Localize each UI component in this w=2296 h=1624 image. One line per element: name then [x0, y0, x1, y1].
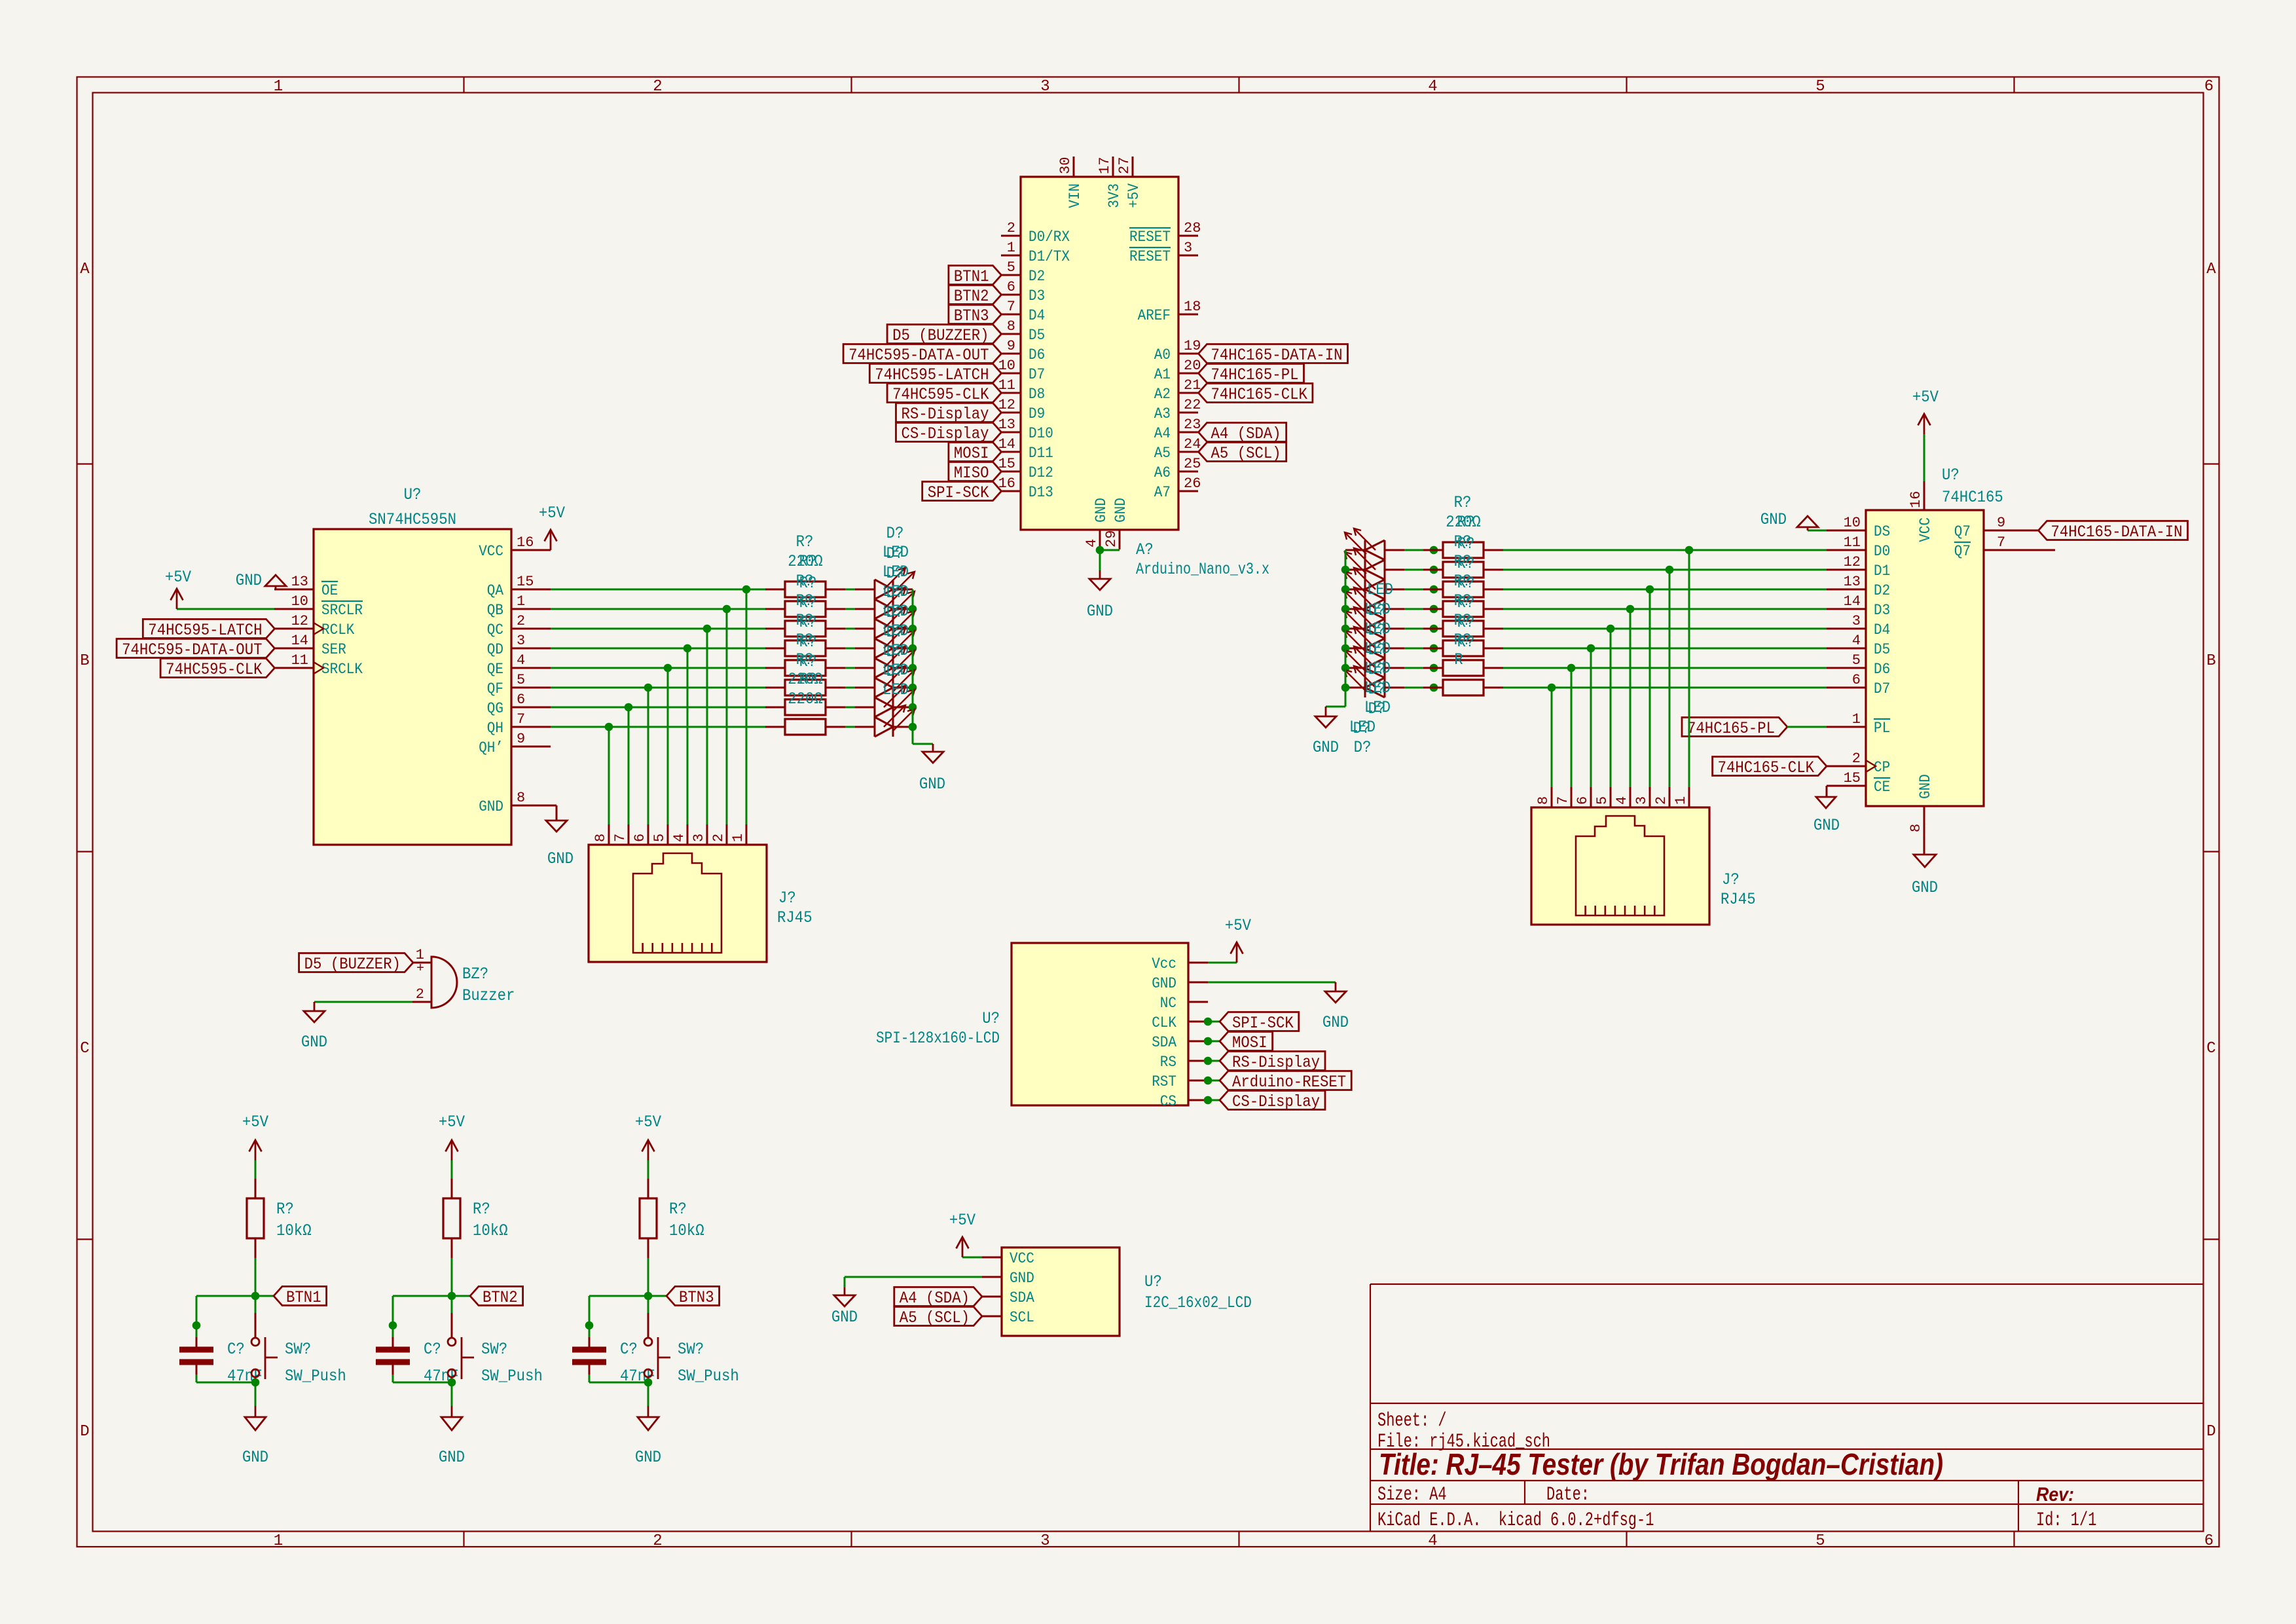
- junction: [605, 723, 613, 731]
- led D? LED row 6: [855, 666, 915, 697]
- ic U? 74HC165 body: [1866, 510, 1984, 806]
- ground at CE pin 15: [1813, 786, 1840, 835]
- hierarchical label MISO: [949, 462, 1002, 481]
- svg-text:10: 10: [291, 593, 308, 610]
- svg-text:D: D: [80, 1423, 89, 1441]
- hierarchical label BTN1: [949, 266, 1002, 285]
- svg-text:Arduino_Nano_v3.x: Arduino_Nano_v3.x: [1136, 560, 1269, 579]
- svg-text:J?: J?: [778, 889, 796, 908]
- svg-text:4: 4: [517, 652, 525, 669]
- svg-text:D?: D?: [886, 524, 904, 543]
- wire: [1208, 962, 1237, 964]
- ground at GND: [1322, 982, 1349, 1032]
- svg-text:D1: D1: [1874, 563, 1890, 580]
- svg-text:3: 3: [1184, 240, 1192, 256]
- svg-text:15: 15: [1844, 770, 1861, 786]
- svg-text:+5V: +5V: [539, 504, 565, 523]
- svg-text:7: 7: [517, 711, 525, 728]
- pin 1: [730, 824, 746, 845]
- svg-text:GND: GND: [236, 571, 262, 590]
- svg-text:GND: GND: [919, 775, 945, 794]
- switch SW? SW_Push button BTN3: [644, 1296, 739, 1386]
- hierarchical label BTN3: [949, 305, 1002, 324]
- svg-text:2: 2: [517, 613, 525, 629]
- svg-text:3: 3: [1040, 1532, 1049, 1550]
- svg-text:3: 3: [1633, 796, 1650, 805]
- svg-text:74HC595-CLK: 74HC595-CLK: [892, 385, 989, 404]
- svg-text:D6: D6: [1874, 661, 1890, 678]
- pin 1: [1673, 787, 1689, 807]
- hierarchical label D5 (BUZZER): [299, 953, 413, 972]
- junction: [251, 1378, 260, 1387]
- capacitor C? 47nF button BTN2: [376, 1325, 459, 1386]
- svg-text:RCLK: RCLK: [321, 621, 355, 638]
- pin 8 GND: [1908, 774, 1934, 855]
- resistor R? 220 ohm row 2: [765, 601, 845, 617]
- pin 19 A0: [1154, 338, 1201, 363]
- svg-text:20: 20: [1184, 358, 1201, 374]
- svg-text:7: 7: [612, 834, 629, 842]
- junction: [1341, 625, 1350, 633]
- hierarchical label BTN1: [274, 1287, 327, 1306]
- svg-text:10kΩ: 10kΩ: [276, 1221, 312, 1240]
- pin 8 D5: [1001, 318, 1045, 344]
- wire: [1208, 1060, 1220, 1062]
- wire: [1404, 608, 1423, 610]
- wire to RJ45: [1610, 629, 1612, 787]
- svg-text:A0: A0: [1154, 346, 1171, 363]
- svg-text:74HC165-CLK: 74HC165-CLK: [1211, 385, 1307, 404]
- svg-text:+5V: +5V: [1912, 388, 1939, 407]
- svg-text:GND: GND: [242, 1448, 268, 1467]
- pin 4 GND: [1084, 498, 1110, 549]
- resistor R? 220 ohm row 3: [1423, 581, 1503, 597]
- pin 9 D6: [1001, 338, 1045, 363]
- wire to RJ45: [746, 589, 748, 824]
- wire: [845, 687, 855, 689]
- hierarchical label Arduino-RESET: [1220, 1071, 1351, 1090]
- svg-text:30: 30: [1057, 157, 1074, 174]
- svg-text:BTN2: BTN2: [483, 1288, 518, 1307]
- hierarchical label CS-Display: [896, 423, 1002, 442]
- svg-text:7: 7: [1007, 299, 1015, 315]
- svg-text:I2C_16x02_LCD: I2C_16x02_LCD: [1144, 1293, 1252, 1312]
- pin 14 D3: [1827, 593, 1890, 619]
- pin 4 D5: [1827, 633, 1890, 658]
- svg-text:17: 17: [1097, 157, 1113, 174]
- wire D0-D7 row 5: [1503, 628, 1827, 630]
- svg-text:D12: D12: [1029, 464, 1053, 481]
- svg-text:GND: GND: [1917, 774, 1934, 799]
- wire QA-QH row 3: [551, 628, 765, 630]
- pin 15 QA: [487, 574, 551, 599]
- junction: [448, 1292, 456, 1301]
- led D? LED row 3: [855, 607, 915, 638]
- junction: [1204, 1077, 1212, 1085]
- wire: [196, 1382, 255, 1384]
- svg-text:6: 6: [517, 692, 525, 708]
- svg-text:+: +: [416, 961, 424, 976]
- svg-text:R?: R?: [799, 613, 817, 632]
- wire: [1787, 726, 1827, 728]
- svg-text:9: 9: [1997, 515, 2005, 531]
- svg-text:7: 7: [1997, 534, 2005, 551]
- svg-text:10: 10: [1844, 515, 1861, 531]
- hierarchical label 74HC165-CLK: [1713, 757, 1827, 776]
- svg-text:QG: QG: [487, 700, 503, 717]
- wire D0-D7 row 4: [1503, 608, 1827, 610]
- wire D0-D7 row 8: [1503, 687, 1827, 689]
- wire: [845, 589, 855, 591]
- svg-text:23: 23: [1184, 416, 1201, 433]
- pin 3 RESET: [1129, 240, 1198, 265]
- hierarchical label 74HC595-LATCH: [143, 619, 274, 638]
- pin 24 A5: [1154, 436, 1201, 462]
- svg-text:+5V: +5V: [1125, 183, 1142, 208]
- resistor R? 10k ohm button BTN3: [640, 1179, 704, 1258]
- pin 13 D2: [1827, 574, 1890, 599]
- wire: [845, 726, 855, 728]
- junction: [1341, 605, 1350, 614]
- pin 1 +: [413, 947, 431, 976]
- junction: [1666, 566, 1674, 574]
- wire: [255, 1382, 257, 1406]
- svg-text:A5 (SCL): A5 (SCL): [900, 1308, 970, 1327]
- wire: [1404, 687, 1423, 689]
- svg-text:D?: D?: [1354, 738, 1372, 757]
- svg-text:D2: D2: [1029, 268, 1045, 285]
- svg-text:D?: D?: [886, 662, 904, 681]
- svg-text:6: 6: [2204, 78, 2214, 96]
- pin 8: [1535, 787, 1552, 807]
- junction: [1341, 644, 1350, 653]
- svg-text:8: 8: [517, 790, 525, 806]
- svg-text:SW_Push: SW_Push: [481, 1367, 543, 1386]
- junction: [585, 1321, 594, 1330]
- ground: [301, 1002, 327, 1052]
- svg-text:B: B: [2206, 652, 2215, 670]
- svg-text:10kΩ: 10kΩ: [669, 1221, 704, 1240]
- svg-text:A?: A?: [1136, 540, 1154, 559]
- wire: [196, 1296, 198, 1325]
- svg-text:29: 29: [1103, 530, 1120, 547]
- pin SDA: [982, 1289, 1034, 1306]
- wire to RJ45: [628, 707, 630, 824]
- ground at GND: [831, 1287, 858, 1327]
- svg-text:OE: OE: [321, 582, 338, 599]
- wire: [962, 1257, 982, 1259]
- pin 16 VCC: [479, 534, 551, 560]
- svg-text:R?: R?: [1457, 534, 1475, 553]
- pin RS: [1160, 1054, 1208, 1071]
- svg-text:D?: D?: [1368, 640, 1386, 659]
- wire to RJ45: [726, 609, 728, 824]
- pin 14 D11: [998, 436, 1053, 462]
- svg-text:3V3: 3V3: [1106, 183, 1123, 208]
- svg-text:5: 5: [517, 672, 525, 688]
- hierarchical label 74HC165-DATA-IN: [2039, 521, 2188, 540]
- svg-text:3: 3: [1852, 613, 1861, 629]
- wire LED cathode bus: [1345, 550, 1347, 707]
- svg-text:A4 (SDA): A4 (SDA): [900, 1289, 970, 1308]
- pin 12 D1: [1827, 554, 1890, 580]
- svg-text:Buzzer: Buzzer: [462, 986, 515, 1005]
- svg-text:13: 13: [291, 574, 308, 590]
- svg-text:CS-Display: CS-Display: [902, 424, 989, 443]
- wire: [845, 707, 855, 709]
- wire: [589, 1295, 648, 1297]
- hierarchical label BTN3: [666, 1287, 720, 1306]
- hierarchical label MOSI: [1220, 1032, 1273, 1051]
- svg-text:5: 5: [651, 834, 668, 842]
- svg-text:16: 16: [1908, 491, 1924, 508]
- wire: [1404, 648, 1423, 650]
- svg-text:CS-Display: CS-Display: [1232, 1092, 1320, 1111]
- svg-text:3: 3: [517, 633, 525, 649]
- svg-text:SN74HC595N: SN74HC595N: [369, 510, 456, 529]
- svg-text:BTN3: BTN3: [679, 1288, 714, 1307]
- ground: [635, 1406, 661, 1467]
- svg-text:GND: GND: [831, 1308, 858, 1327]
- svg-text:MISO: MISO: [954, 464, 989, 483]
- svg-text:11: 11: [291, 652, 308, 669]
- wire: [314, 1001, 412, 1003]
- svg-text:VIN: VIN: [1066, 183, 1084, 208]
- svg-text:74HC165-PL: 74HC165-PL: [1211, 365, 1299, 384]
- wire: [1208, 1021, 1220, 1023]
- power +5V at VCC: [962, 1237, 964, 1257]
- svg-text:4: 4: [1428, 1532, 1437, 1550]
- svg-text:BZ?: BZ?: [462, 965, 488, 984]
- svg-text:RJ45: RJ45: [1721, 890, 1756, 909]
- wire: [845, 628, 855, 630]
- pin 10 SRCLR: [274, 593, 363, 619]
- svg-text:A4 (SDA): A4 (SDA): [1211, 424, 1281, 443]
- svg-text:GND: GND: [1912, 878, 1938, 897]
- svg-text:2: 2: [653, 1532, 662, 1550]
- svg-text:3: 3: [1040, 78, 1049, 96]
- wire to RJ45: [1571, 668, 1573, 787]
- junction: [1587, 644, 1595, 653]
- junction: [1607, 625, 1615, 633]
- svg-text:NC: NC: [1160, 995, 1176, 1012]
- svg-text:U?: U?: [404, 485, 422, 504]
- pin 2 CP: [1827, 750, 1890, 776]
- svg-text:6: 6: [1852, 672, 1861, 688]
- svg-text:A7: A7: [1154, 484, 1171, 501]
- svg-text:QH’: QH’: [479, 739, 503, 756]
- svg-text:A: A: [80, 261, 90, 278]
- pin 15 D12: [998, 456, 1053, 481]
- svg-text:SPI-128x160-LCD: SPI-128x160-LCD: [876, 1029, 1000, 1048]
- svg-text:74HC595-DATA-OUT: 74HC595-DATA-OUT: [122, 640, 262, 659]
- resistor R? 220 ohm row 2: [1423, 562, 1503, 578]
- hierarchical label 74HC165-CLK: [1199, 384, 1313, 403]
- wire to RJ45: [647, 688, 649, 824]
- wire: [392, 1296, 394, 1325]
- svg-text:8: 8: [1908, 824, 1924, 832]
- svg-text:+5V: +5V: [242, 1113, 268, 1132]
- svg-text:SRCLK: SRCLK: [321, 661, 363, 678]
- svg-text:Q7: Q7: [1954, 543, 1971, 560]
- junction: [1548, 684, 1556, 692]
- svg-text:10kΩ: 10kΩ: [473, 1221, 508, 1240]
- pin CLK: [1152, 1014, 1208, 1031]
- svg-text:D0: D0: [1874, 543, 1890, 560]
- svg-text:LED: LED: [883, 680, 909, 699]
- pin 6 QG: [487, 692, 551, 717]
- svg-text:R?: R?: [796, 532, 814, 551]
- led D? LED row 7: [855, 686, 915, 717]
- svg-text:+5V: +5V: [1225, 916, 1251, 935]
- svg-text:SPI-SCK: SPI-SCK: [928, 483, 989, 502]
- junction: [1646, 585, 1654, 594]
- hierarchical label BTN2: [949, 286, 1002, 304]
- svg-text:D?: D?: [886, 564, 904, 583]
- svg-text:BTN1: BTN1: [286, 1288, 321, 1307]
- svg-text:R?: R?: [1457, 513, 1475, 532]
- svg-text:SW_Push: SW_Push: [678, 1367, 739, 1386]
- wire: [1099, 550, 1101, 570]
- wire QA-QH row 2: [551, 608, 765, 610]
- svg-text:2: 2: [416, 986, 424, 1003]
- pin 10 D7: [998, 358, 1046, 383]
- pin 2: [710, 824, 727, 845]
- pin 8 GND: [479, 790, 551, 815]
- power +5V button BTN1: [242, 1113, 268, 1160]
- wire: [589, 1375, 591, 1382]
- svg-text:D?: D?: [1368, 621, 1386, 640]
- svg-text:LED: LED: [1367, 580, 1393, 599]
- svg-text:GND: GND: [1813, 816, 1840, 835]
- pin 11 SRCLK: [274, 652, 363, 678]
- resistor R? 220 ohm row 1: [1423, 542, 1503, 558]
- led D? LED row 4: [855, 627, 915, 658]
- svg-text:C?: C?: [620, 1340, 638, 1359]
- led D? LED row 7: [1345, 646, 1404, 678]
- pin 29 GND: [1103, 498, 1129, 549]
- power +5V at Vcc: [1236, 942, 1238, 963]
- svg-text:U?: U?: [1144, 1272, 1162, 1291]
- resistor R? 10k ohm button BTN2: [443, 1179, 508, 1258]
- pin 25 A6: [1154, 456, 1201, 481]
- svg-text:D?: D?: [1368, 660, 1386, 679]
- svg-text:74HC165-CLK: 74HC165-CLK: [1718, 758, 1814, 777]
- junction: [703, 625, 712, 633]
- svg-text:D2: D2: [1874, 582, 1890, 599]
- pin 9 Q7: [1954, 515, 2038, 540]
- pin 7 Q7 inverted: [1954, 534, 2055, 560]
- svg-text:Rev:: Rev:: [2036, 1484, 2074, 1505]
- svg-text:D0/RX: D0/RX: [1029, 229, 1070, 246]
- pin 1 QB: [487, 593, 551, 619]
- wire: [451, 1382, 453, 1406]
- pin 22 A3: [1154, 397, 1201, 422]
- svg-text:D9: D9: [1029, 405, 1045, 422]
- junction: [1204, 1096, 1212, 1105]
- wire: [1404, 667, 1423, 669]
- svg-text:A1: A1: [1154, 366, 1171, 383]
- svg-text:R?: R?: [799, 633, 817, 652]
- connector J? RJ45 left: [589, 845, 767, 962]
- hierarchical label CS-Display: [1220, 1091, 1325, 1110]
- svg-text:1: 1: [517, 593, 525, 610]
- junction: [664, 664, 672, 673]
- wire: [845, 608, 855, 610]
- svg-text:D?: D?: [886, 642, 904, 661]
- power +5V button BTN2: [439, 1113, 465, 1160]
- wire to RJ45: [1669, 570, 1671, 787]
- wire: [1326, 706, 1345, 708]
- pin 4: [1614, 787, 1630, 807]
- ground: [242, 1406, 268, 1467]
- junction: [644, 1292, 653, 1301]
- pin 2: [1653, 787, 1669, 807]
- ground at DS pin 10: [1760, 510, 1827, 530]
- svg-text:SER: SER: [321, 641, 346, 658]
- svg-text:9: 9: [1007, 338, 1015, 354]
- svg-text:3: 3: [691, 834, 707, 842]
- svg-text:25: 25: [1184, 456, 1201, 472]
- svg-text:8: 8: [1535, 796, 1552, 805]
- hierarchical label 74HC595-LATCH: [869, 364, 1001, 383]
- pin 9 QH’: [479, 731, 551, 756]
- wire to RJ45: [1688, 550, 1690, 787]
- svg-text:D?: D?: [886, 603, 904, 622]
- pin 6: [632, 824, 648, 845]
- pin NC: [1160, 995, 1208, 1012]
- junction: [1430, 664, 1438, 673]
- svg-text:GND: GND: [1112, 498, 1129, 523]
- pin GND: [982, 1270, 1034, 1287]
- junction: [1096, 546, 1104, 555]
- svg-text:R?: R?: [799, 574, 817, 593]
- pin VCC: [982, 1250, 1034, 1267]
- svg-text:R?: R?: [799, 652, 817, 671]
- led D? LED row 4: [1345, 587, 1404, 619]
- svg-text:MOSI: MOSI: [954, 444, 989, 463]
- junction: [909, 644, 917, 653]
- svg-text:5: 5: [1815, 1532, 1825, 1550]
- resistor R? 10k ohm button BTN1: [247, 1179, 312, 1258]
- pin 3 D4: [1827, 613, 1890, 638]
- svg-text:R?: R?: [276, 1200, 294, 1219]
- wire: [392, 1375, 394, 1382]
- hierarchical label A5 (SCL): [894, 1307, 982, 1326]
- svg-text:Date:: Date:: [1546, 1484, 1590, 1506]
- power +5V at VCC pin 16: [1923, 414, 1925, 434]
- wire to RJ45: [706, 629, 708, 824]
- resistor R? 220 ohm row 8: [765, 719, 845, 735]
- svg-text:GND: GND: [479, 798, 503, 815]
- svg-text:A3: A3: [1154, 405, 1171, 422]
- svg-text:A5: A5: [1154, 445, 1171, 462]
- wire: [1208, 982, 1336, 984]
- svg-text:QB: QB: [487, 602, 503, 619]
- svg-text:U?: U?: [1942, 466, 1959, 485]
- led D? LED row 8: [1345, 666, 1404, 697]
- svg-text:VCC: VCC: [479, 543, 503, 560]
- svg-text:2: 2: [1653, 796, 1669, 805]
- junction: [1430, 546, 1438, 555]
- svg-text:R?: R?: [1457, 574, 1475, 593]
- svg-text:D4: D4: [1029, 307, 1045, 324]
- pin 3: [691, 824, 707, 845]
- svg-text:GND: GND: [1313, 738, 1339, 757]
- hierarchical label SPI-SCK: [1220, 1012, 1299, 1031]
- wire: [845, 648, 855, 650]
- pin 2: [412, 986, 431, 1003]
